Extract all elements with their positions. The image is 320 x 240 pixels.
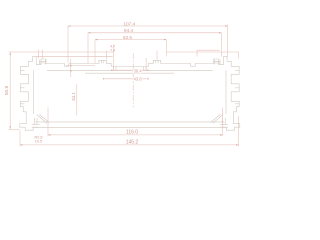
svg-text:50.8: 50.8 (4, 86, 10, 96)
svg-text:116.0: 116.0 (126, 130, 138, 136)
svg-text:34.1: 34.1 (71, 92, 76, 101)
svg-text:107.4: 107.4 (124, 21, 136, 26)
svg-text:43.8: 43.8 (134, 77, 143, 82)
svg-text:10.5: 10.5 (35, 139, 42, 143)
svg-text:145.2: 145.2 (126, 140, 139, 146)
svg-text:30.4: 30.4 (134, 68, 143, 73)
svg-text:7.4: 7.4 (110, 49, 115, 53)
svg-text:94.4: 94.4 (124, 28, 133, 33)
svg-text:62.5: 62.5 (123, 35, 132, 40)
